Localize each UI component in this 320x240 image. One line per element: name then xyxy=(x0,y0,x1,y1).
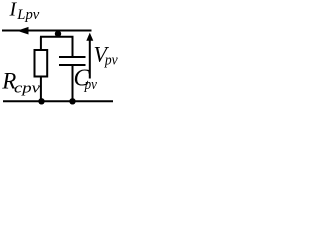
voltage arrow V_pv (points up at top wire) xyxy=(86,33,93,79)
wire (short drop from top wire to bus) xyxy=(57,31,59,37)
wire node bus xyxy=(40,36,74,38)
resistor R_cpv xyxy=(35,37,48,102)
svg-text:pv: pv xyxy=(84,77,97,93)
label I_Lpv xyxy=(9,0,40,23)
capacitor C_pv xyxy=(59,37,86,102)
label C_pv xyxy=(74,65,98,93)
svg-text:cpv: cpv xyxy=(14,81,40,97)
junction dot (capacitor bottom) xyxy=(69,98,75,104)
node A junction dot xyxy=(55,31,61,37)
current arrow I_Lpv (points left on top wire) xyxy=(17,27,29,35)
wire top (positive rail) xyxy=(2,30,92,32)
label R_cpv xyxy=(1,69,40,97)
junction dot (resistor bottom) xyxy=(38,98,44,104)
svg-text:Lpv: Lpv xyxy=(16,7,39,23)
label V_pv xyxy=(94,41,118,68)
svg-text:pv: pv xyxy=(104,53,118,69)
wire bottom (return rail) xyxy=(3,100,113,102)
svg-text:I: I xyxy=(9,0,18,21)
